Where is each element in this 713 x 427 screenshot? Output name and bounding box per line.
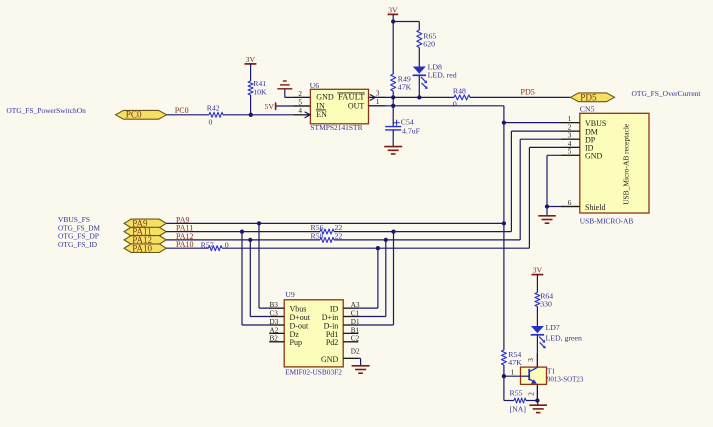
svg-text:3: 3 — [376, 90, 380, 98]
svg-text:R57: R57 — [201, 240, 214, 249]
wire CN5 pin 6 Shield — [547, 206, 580, 208]
svg-text:1: 1 — [568, 115, 572, 123]
svg-text:330: 330 — [540, 299, 552, 308]
wire OUT net — [369, 105, 504, 107]
svg-text:C54: C54 — [401, 118, 414, 127]
svg-text:4.7uF: 4.7uF — [402, 127, 421, 136]
ground (U9) — [352, 365, 370, 367]
svg-text:CN5: CN5 — [580, 104, 595, 113]
wire base to T1 — [504, 375, 521, 377]
resistor R56 22 — [320, 229, 334, 234]
capacitor C54 4.7uF — [392, 106, 394, 126]
svg-text:OUT: OUT — [348, 101, 365, 110]
wire U9 B3 Vbus — [259, 307, 284, 309]
svg-text:1: 1 — [376, 98, 380, 106]
svg-text:EN: EN — [316, 110, 327, 119]
wire 3V to R49 — [392, 22, 394, 75]
resistor R55 [NA] — [514, 398, 526, 403]
wire PC0 to R42 — [167, 114, 209, 116]
U6 FAULT output arrow (redraw) — [370, 94, 376, 100]
junction LD8/FAULT — [417, 95, 421, 99]
svg-text:USB_Micro-AB receptacle: USB_Micro-AB receptacle — [622, 123, 631, 205]
U6 EN input arrow — [305, 112, 311, 118]
wire R54 to base junction — [503, 365, 505, 401]
U6 FAULT output arrow — [370, 94, 376, 100]
wire U9 A3 ID — [343, 307, 378, 309]
svg-text:U6: U6 — [310, 81, 320, 90]
junction emitter/R55 — [535, 398, 539, 402]
resistor R65 620 — [417, 30, 422, 48]
svg-text:5V: 5V — [264, 102, 274, 111]
svg-text:0: 0 — [209, 117, 213, 126]
wire U9 C3 D+out — [250, 316, 284, 318]
junction PA10/U9 A3 — [376, 246, 380, 250]
wire to ground — [536, 401, 539, 405]
op-amp/IC U6 STMPS2141STR — [310, 89, 368, 124]
svg-text:47K: 47K — [398, 83, 412, 92]
svg-text:[NA]: [NA] — [510, 404, 527, 413]
wire PA12 net — [166, 239, 320, 241]
connector CN5 USB-MICRO-AB — [580, 113, 649, 213]
wire 3V to R41 — [250, 64, 252, 81]
svg-text:PD5: PD5 — [521, 87, 535, 96]
junction shield/gnd — [545, 204, 549, 208]
svg-text:3: 3 — [527, 358, 535, 362]
svg-text:EMIF02-USB03F2: EMIF02-USB03F2 — [285, 368, 342, 377]
svg-text:LD7: LD7 — [546, 323, 560, 332]
ground (U6 pin 2, flipped) — [277, 88, 292, 90]
junction PA12/U9 C1 — [384, 238, 388, 242]
port PD5 — [571, 93, 615, 102]
junction PA11/U9 D1 — [391, 229, 395, 233]
svg-text:STMPS2141STR: STMPS2141STR — [310, 123, 363, 132]
wire R64 to LD7 — [536, 307, 538, 327]
port PC0 — [116, 110, 167, 119]
svg-text:OTG_FS_PowerSwitchOn: OTG_FS_PowerSwitchOn — [6, 106, 85, 115]
junction PA9/VBUS col — [502, 221, 506, 225]
wire 5V to U6 IN pin 5 — [276, 105, 311, 107]
ground (T1) — [529, 404, 547, 406]
wire R65 to LD8 — [418, 48, 420, 67]
wire U9 D3 D-out — [242, 324, 284, 326]
wire R41 to PC0 net — [250, 95, 252, 115]
svg-text:USB-MICRO-AB: USB-MICRO-AB — [580, 216, 634, 225]
junction 3V branch — [391, 19, 395, 23]
svg-text:9013-SOT23: 9013-SOT23 — [547, 374, 584, 383]
port PA9 — [124, 219, 166, 228]
junction R49/FAULT — [391, 95, 395, 99]
wire T1 emitter down — [536, 384, 538, 400]
junction base — [502, 374, 506, 378]
wire 3V down — [392, 14, 394, 21]
wire U9 B2 stub — [269, 341, 284, 343]
svg-text:LED, green: LED, green — [546, 333, 582, 342]
svg-text:Pd2: Pd2 — [326, 338, 338, 347]
wire C54 to ground — [392, 130, 394, 147]
wire CN5 pin 3 DP — [520, 138, 580, 140]
svg-text:1: 1 — [511, 368, 515, 376]
wire R48 to PD5 port — [470, 96, 571, 98]
svg-text:47K: 47K — [508, 358, 522, 367]
wire U9 D1 D-in — [343, 324, 393, 326]
svg-text:3V: 3V — [388, 5, 398, 14]
port PA12 — [124, 236, 166, 245]
junction C54/OUT — [391, 104, 395, 108]
wire CN5 pin 4 ID — [529, 146, 579, 148]
wire R42 to U6 EN — [223, 114, 310, 116]
junction PA11/U9 D3 — [240, 229, 244, 233]
svg-text:Shield: Shield — [585, 203, 605, 212]
wire PA10 net — [166, 247, 208, 249]
power 3V (LD7) — [532, 274, 544, 276]
svg-text:PA10: PA10 — [132, 243, 152, 253]
svg-text:6: 6 — [568, 199, 572, 207]
svg-text:10K: 10K — [253, 87, 267, 96]
svg-text:U9: U9 — [285, 290, 295, 299]
svg-text:2: 2 — [298, 90, 302, 98]
resistor R41 10K — [248, 81, 253, 95]
svg-text:GND: GND — [316, 93, 334, 102]
resistor R57 0 — [209, 246, 223, 251]
svg-text:FAULT: FAULT — [338, 93, 365, 102]
junction PA9/U9 B3 — [257, 221, 261, 225]
svg-text:OTG_FS_ID: OTG_FS_ID — [58, 240, 97, 249]
junction VBUS column — [502, 120, 506, 124]
svg-text:3V: 3V — [533, 266, 543, 275]
svg-text:0: 0 — [453, 100, 457, 109]
svg-text:R58: R58 — [311, 231, 324, 240]
power 3V (top) — [388, 13, 399, 15]
svg-text:3V: 3V — [246, 55, 256, 64]
svg-text:5: 5 — [298, 98, 302, 106]
wire U6 GND pin 2 — [285, 96, 311, 98]
svg-text:LED, red: LED, red — [428, 70, 457, 79]
power 3V (R41 pull-up) — [244, 63, 256, 65]
wire LD8 to fault net — [418, 75, 420, 97]
svg-text:PC0: PC0 — [175, 106, 189, 115]
resistor R54 47K — [501, 350, 506, 365]
wire 3V to R64 — [536, 275, 538, 293]
svg-text:4: 4 — [298, 107, 302, 115]
ground (CN5) — [538, 215, 556, 217]
wire R49 down — [392, 91, 394, 106]
resistor R48 0 — [454, 95, 470, 100]
resistor R42 — [209, 112, 223, 117]
resistor R58 22 — [320, 237, 334, 242]
wire R55 row — [504, 400, 514, 402]
pin stubs CN5 — [561, 122, 579, 124]
svg-text:PC0: PC0 — [126, 110, 142, 120]
resistor R49 47K — [391, 74, 396, 91]
power 5V — [275, 102, 277, 110]
IC U9 EMIF02-USB03F2 — [284, 300, 343, 367]
wire U9 C1 D+in — [343, 316, 386, 318]
svg-text:620: 620 — [423, 40, 435, 49]
pin stubs U6 — [293, 96, 310, 98]
wire PA9 net — [166, 222, 504, 224]
wire branch to R65 — [393, 21, 419, 23]
port PA11 — [124, 227, 166, 236]
transistor T1 9013-SOT23 — [521, 367, 547, 384]
ground (C54) — [384, 146, 402, 148]
junction PA12/U9 C3 — [248, 238, 252, 242]
resistor R64 330 — [535, 293, 540, 307]
wire CN5 pin 2 DM — [511, 130, 579, 132]
svg-text:R42: R42 — [207, 103, 220, 112]
svg-text:Pup: Pup — [290, 338, 302, 347]
svg-text:2: 2 — [528, 392, 536, 396]
port PA10 — [124, 244, 166, 253]
wire U9 C2 stub — [343, 341, 358, 343]
wire LD7 to T1 collector — [536, 335, 538, 367]
pin stubs T1 — [536, 353, 538, 367]
svg-text:R48: R48 — [453, 86, 466, 95]
svg-text:GND: GND — [585, 152, 603, 161]
wire CN5 pin 1 VBUS — [504, 122, 580, 124]
svg-text:22: 22 — [335, 231, 343, 240]
svg-text:3: 3 — [568, 132, 572, 140]
svg-text:5: 5 — [568, 148, 572, 156]
LED LD7 green — [531, 326, 544, 333]
LED LD8 red — [413, 67, 426, 74]
svg-text:D2: D2 — [351, 348, 360, 356]
svg-text:PD5: PD5 — [580, 92, 597, 102]
wire U9 D2 GND — [343, 357, 360, 359]
junction R41/PC0 — [249, 113, 253, 117]
wire U9 A2 stub — [269, 332, 284, 334]
wire CN5 pin 5 GND — [547, 154, 580, 156]
wire PA11 net — [166, 231, 320, 233]
svg-text:R55: R55 — [510, 388, 523, 397]
svg-text:4: 4 — [568, 140, 572, 148]
wire U9 B1 stub — [343, 332, 358, 334]
wire FAULT to R48 — [369, 96, 455, 98]
pin stubs U9 — [269, 307, 283, 309]
svg-text:2: 2 — [568, 124, 572, 132]
svg-text:OTG_FS_OverCurrent: OTG_FS_OverCurrent — [632, 89, 702, 98]
svg-text:GND: GND — [321, 355, 339, 364]
U6 EN input arrow (redraw) — [305, 112, 311, 118]
